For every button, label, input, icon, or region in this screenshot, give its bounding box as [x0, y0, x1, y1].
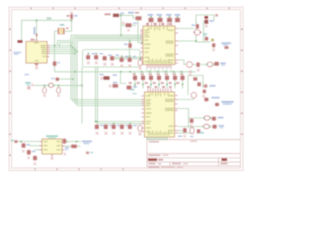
polarized capacitor C13: [190, 127, 194, 133]
diode D4 on rail: [100, 74, 118, 80]
connector pin J1: [11, 140, 18, 143]
wire long rail under IC2: [55, 71, 196, 73]
wire bus vertical 2: [73, 37, 144, 102]
RF row resistor R10: [103, 55, 112, 66]
RF row resistor R11: [110, 55, 119, 66]
capacitor C14: [197, 129, 201, 133]
transistor T4: [191, 90, 206, 98]
resistor R27 right block: [192, 24, 200, 29]
resistor R30 on IC3 net: [204, 97, 233, 106]
wire IC4 right nets: [62, 141, 81, 143]
wire IC4 left nets: [17, 141, 43, 143]
microphone symbol MK1: [25, 82, 33, 89]
transistor T3 mid-right block: [193, 77, 215, 88]
wire mid-right loop: [188, 76, 203, 96]
RF row resistor R13: [120, 56, 129, 68]
resistor R24: [112, 125, 121, 135]
GSM module IC2: [141, 23, 179, 72]
resistor R23: [104, 125, 113, 135]
RF row resistor R9: [94, 53, 103, 65]
wire bottom bus vertical pair: [96, 67, 145, 122]
IC2 right pins: [175, 29, 179, 64]
resistor R15: [129, 73, 137, 88]
IC1 value text: [14, 52, 22, 54]
wire vertical x82: [81, 67, 83, 124]
capacitor C15: [43, 85, 47, 97]
transistor T1 top right: [194, 30, 202, 36]
title block size/date row: [149, 163, 189, 168]
junction on x82: [81, 85, 83, 87]
resistor R36 right of IC4: [63, 139, 66, 144]
resistor R21: [176, 73, 184, 88]
bottom right cluster near IC3: [178, 124, 224, 137]
wire IC3 right pin nets: [178, 93, 194, 100]
fuse F3: [204, 124, 210, 128]
op-amp regulator IC1: [14, 27, 50, 69]
capacitor C2 top row: [122, 22, 137, 32]
fuse F2: [204, 116, 210, 120]
resistor R37: [65, 145, 77, 151]
resistor R25: [120, 125, 129, 135]
resistor R33: [22, 143, 31, 152]
title block Rev label: [222, 158, 228, 161]
IC3 left pins: [142, 96, 145, 132]
mid resistor row between IC2 and IC3: [100, 72, 185, 95]
wire R row to IC2 lower-left: [113, 56, 143, 58]
crystal Q1: [58, 24, 69, 34]
frame outer border: [9, 7, 243, 170]
resistor R29: [214, 62, 225, 66]
IC4 pin name text: [44, 141, 61, 151]
transistor T2 mid right: [187, 62, 193, 76]
resistor R31: [212, 117, 216, 121]
diode D1 top row: [105, 13, 125, 17]
IC4 label text above: [46, 135, 58, 137]
resistor R2 top row: [128, 12, 142, 20]
wire bus vertical 3: [75, 39, 144, 104]
capacitor C12: [190, 119, 194, 123]
net label text cyan: [200, 132, 205, 134]
resistor R22: [95, 125, 104, 135]
resistor R1 top-left: [67, 12, 78, 19]
wire audio filter net: [34, 84, 82, 86]
wire IC1 pin wires: [50, 45, 72, 47]
IC1 top pin: [36, 39, 38, 42]
resistor R7: [175, 14, 181, 22]
resistor R17: [145, 73, 153, 88]
IC4 right pins: [62, 142, 65, 150]
resistor R4: [148, 14, 154, 22]
polarized capacitor C9: [138, 125, 142, 135]
IC3 bottom pins: [147, 137, 167, 140]
IC2 top red pin labels: [146, 23, 171, 25]
wire LED branch: [59, 78, 73, 80]
wire branch through R12: [128, 39, 130, 43]
top resistor row above IC2: [137, 14, 181, 22]
wire net VIN top-left L: [22, 20, 72, 40]
wire right block loop: [196, 15, 214, 42]
IC4 bottom pin: [51, 154, 53, 157]
IC1 bottom pin: [36, 63, 38, 66]
wire IC2 right pin to net: [179, 40, 197, 42]
resistor R20: [169, 73, 177, 88]
wire bus vertical 1: [71, 35, 144, 99]
green group box around RF resistor row: [83, 50, 141, 68]
antenna A1: [225, 46, 229, 49]
GSM module IC3: [142, 86, 179, 140]
resistor R32: [183, 128, 187, 133]
wire crystal right branch: [65, 19, 72, 31]
capacitor C8: [121, 72, 138, 90]
IC4 left pins: [40, 142, 43, 150]
wire bus vertical 4: [77, 40, 144, 105]
IC2 pin name text columns: [145, 27, 174, 64]
polarized capacitor C6: [138, 58, 142, 70]
fuse F1: [206, 62, 214, 67]
ferrite bead L1: [48, 83, 55, 87]
antenna net label ANT: [222, 42, 232, 49]
net label vertical near IC1 top riser: [34, 27, 36, 35]
wire bus top horizontals to IC2: [71, 34, 143, 36]
resistor R16: [137, 73, 145, 88]
RF row resistor R14: [128, 56, 137, 68]
resistor R34: [27, 150, 36, 159]
resistor R5: [157, 14, 163, 22]
title block: [147, 140, 241, 168]
capacitor C11 below: [212, 43, 215, 51]
net label text right block: [203, 33, 207, 35]
wire below C5 to long rail: [54, 66, 56, 72]
IC2 bottom pin stubs to rail: [147, 68, 171, 72]
resistor R35: [33, 156, 37, 165]
net labels cyan left of IC3 top: [130, 89, 135, 91]
resistor R6: [166, 14, 172, 22]
IC2 top pins: [148, 23, 172, 26]
LED D3: [51, 78, 59, 81]
IC1 pins right: [47, 46, 50, 57]
resistor R28: [196, 62, 199, 71]
inverter IC4: [40, 135, 65, 159]
wire IC3 right lower net: [178, 126, 213, 128]
resistor R19: [161, 73, 169, 88]
wire nested stub a: [58, 40, 72, 42]
resistor R18: [153, 73, 161, 88]
capacitor C7: [109, 82, 118, 88]
wire crystal left branch: [55, 31, 58, 61]
IC1 refdes text: [18, 40, 23, 43]
frame column/row tick labels: [9, 7, 243, 170]
capacitor C10 right block: [205, 37, 208, 41]
IC3 top red pin labels: [147, 86, 172, 88]
wire top row net: [119, 15, 136, 18]
bottom resistor row under bus: [95, 121, 142, 136]
resistor R26: [128, 125, 137, 135]
IC1 pin name text: [34, 42, 46, 61]
capacitor C16: [57, 85, 61, 97]
resistor R12 on IC2 branch: [124, 41, 132, 48]
small parts: [86, 152, 89, 155]
pin cross pair: [64, 153, 67, 156]
wire IC1 top pin riser: [36, 20, 38, 38]
capacitor C5 on crystal net: [53, 61, 60, 66]
resistor R38: [213, 125, 217, 129]
title block company name: [148, 159, 157, 161]
test point TP1: [211, 39, 214, 42]
IC3 right pins: [175, 96, 179, 134]
IC1 bottom pin cross: [35, 67, 38, 70]
IC4 bottom pin cross: [51, 157, 54, 160]
RF row resistor R8: [86, 53, 95, 65]
IC3 top pins: [148, 89, 171, 93]
wire stubs from rail to resistors: [134, 72, 136, 76]
diode D5 right block: [205, 16, 214, 27]
IC3 pin name text: [146, 93, 174, 136]
row at right y116: [190, 116, 224, 127]
IC2 left pins: [141, 30, 144, 62]
green pin dots on bus: [96, 121, 98, 123]
net label on VIN wire: [47, 18, 51, 20]
IC1 top pin label: [31, 39, 35, 41]
IC2 bottom pins: [147, 65, 171, 69]
net label 2-line: [82, 141, 92, 145]
